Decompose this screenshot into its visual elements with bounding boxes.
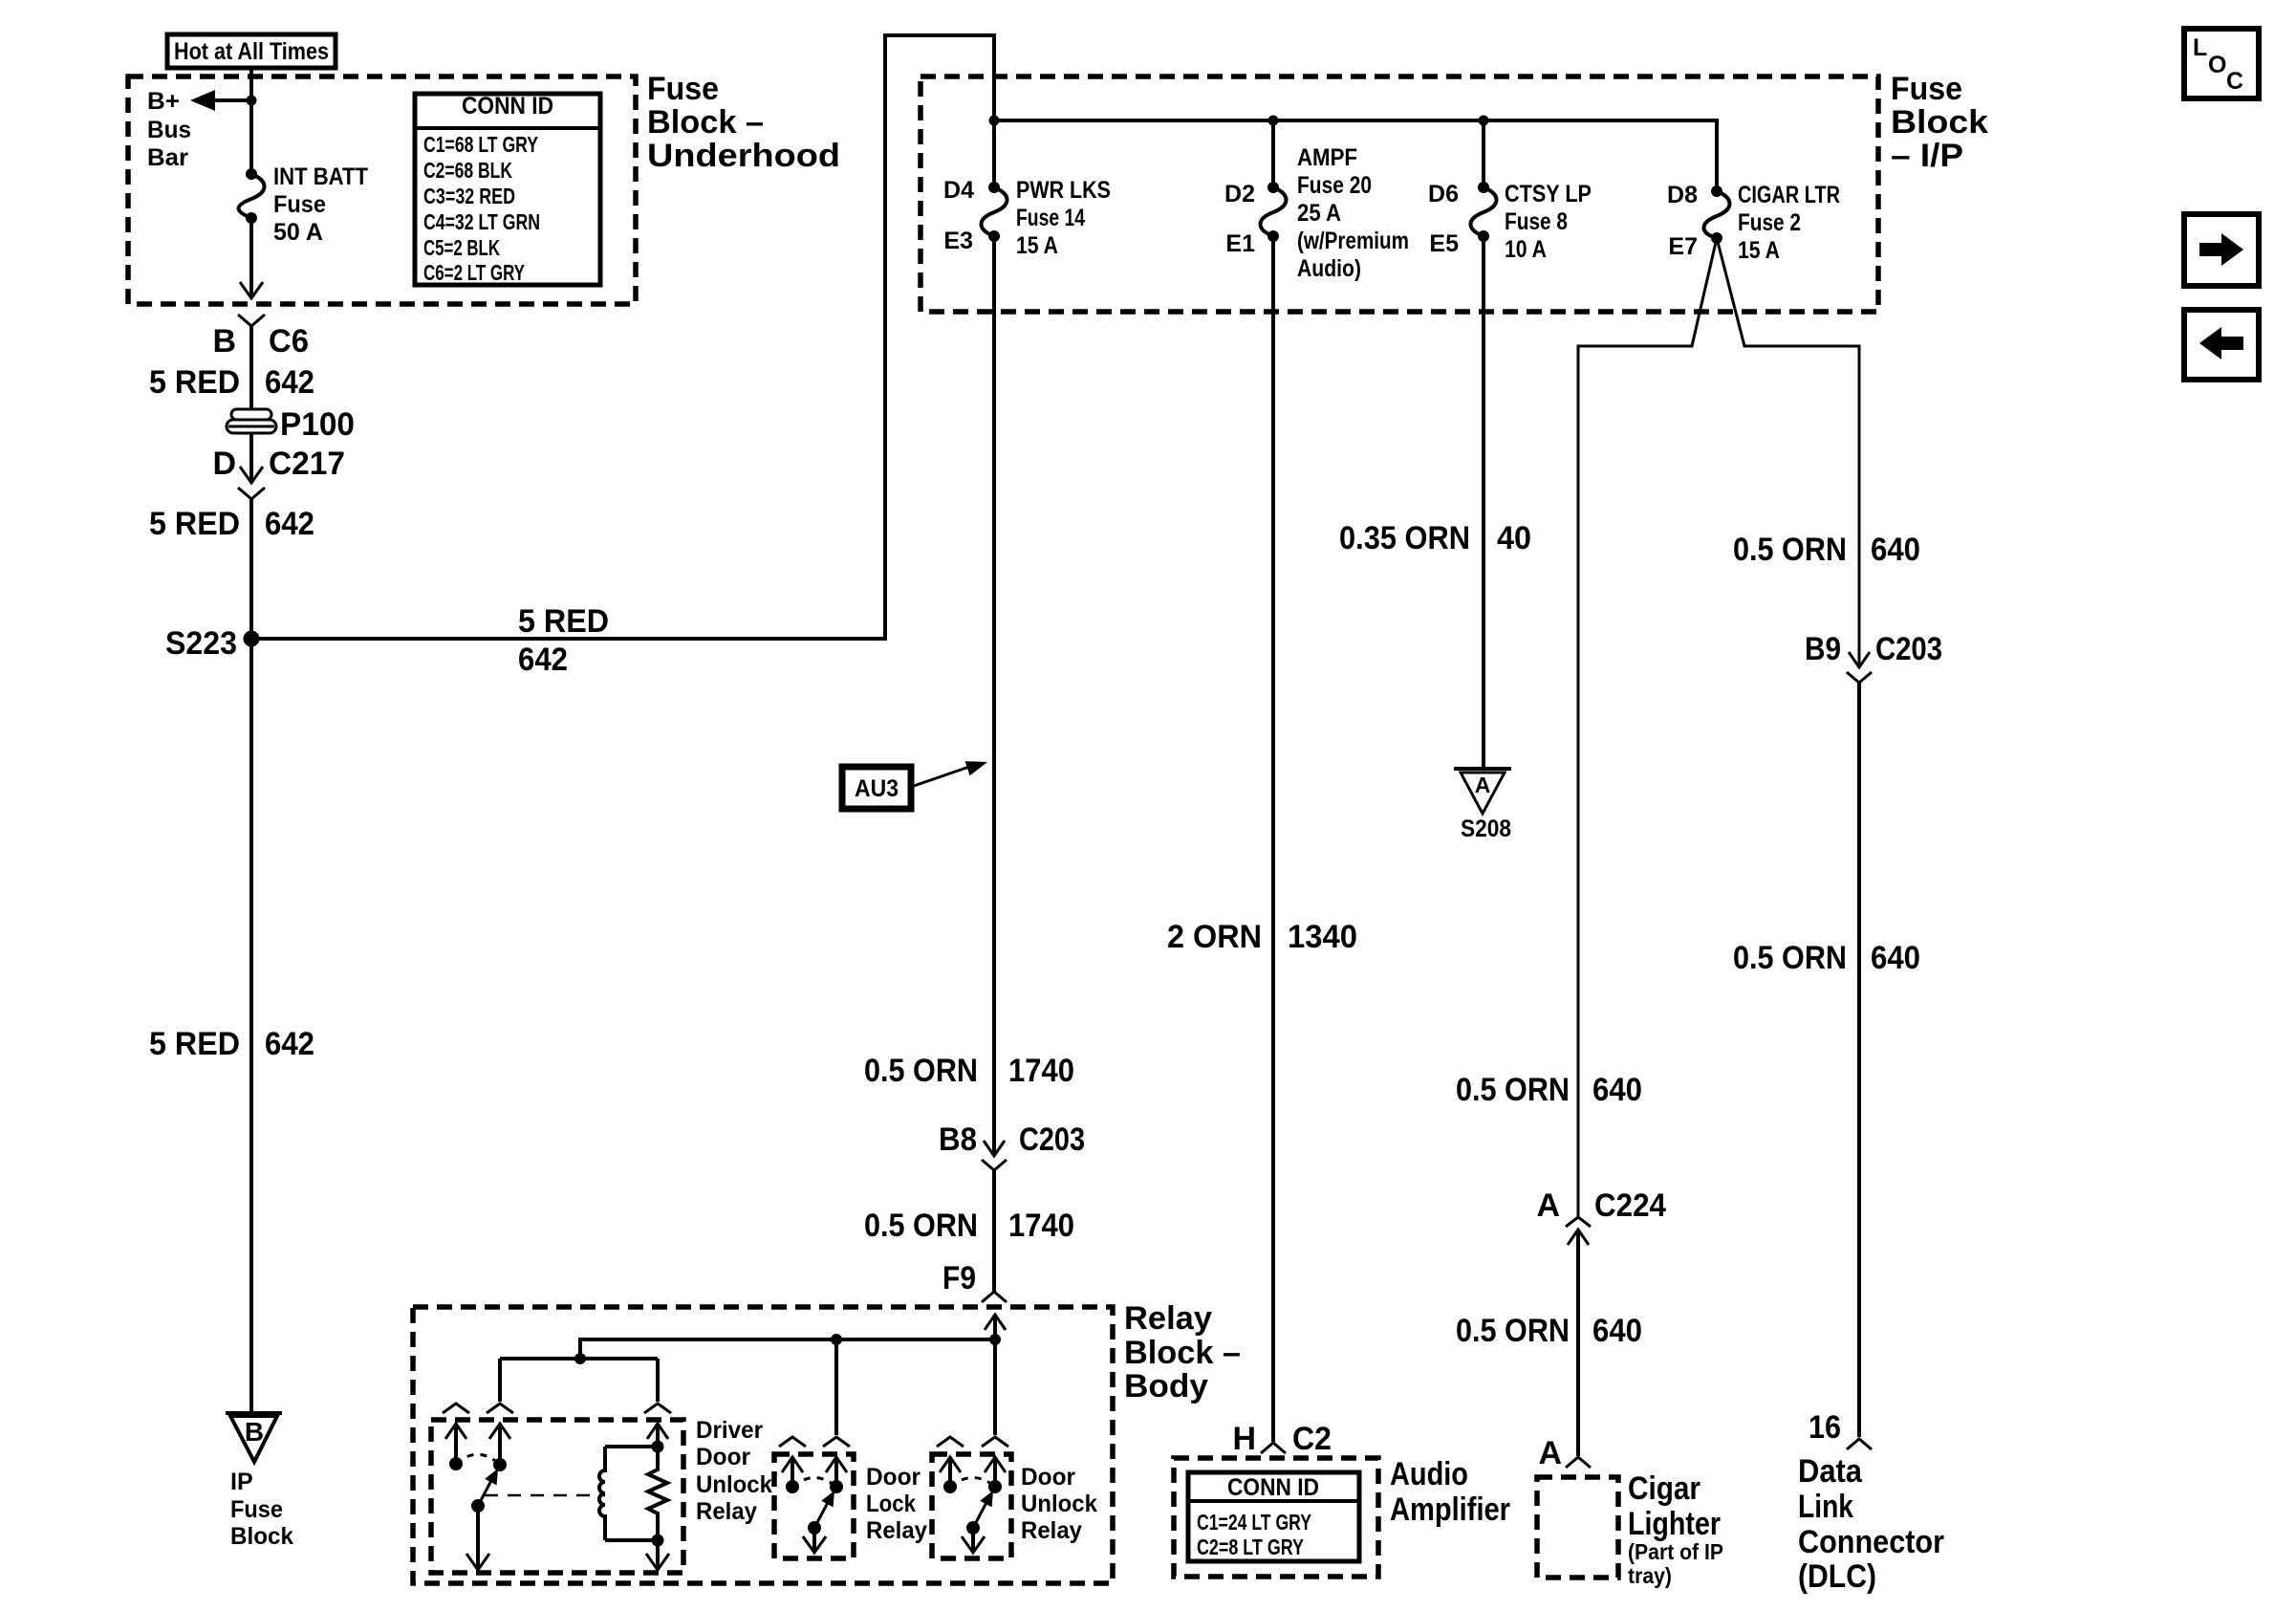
svg-text:B+: B+ (147, 88, 180, 115)
svg-text:642: 642 (265, 506, 314, 542)
svg-text:0.35 ORN: 0.35 ORN (1339, 520, 1470, 556)
svg-text:Body: Body (1124, 1368, 1208, 1404)
svg-text:0.5 ORN: 0.5 ORN (864, 1053, 978, 1089)
svg-text:640: 640 (1871, 940, 1920, 976)
svg-text:C5=2 BLK: C5=2 BLK (423, 235, 500, 260)
svg-text:5 RED: 5 RED (149, 506, 240, 542)
svg-text:(DLC): (DLC) (1798, 1558, 1876, 1595)
svg-text:Door: Door (1021, 1464, 1075, 1491)
svg-text:C3=32 RED: C3=32 RED (423, 184, 515, 208)
svg-text:Amplifier: Amplifier (1390, 1491, 1510, 1528)
svg-text:Block: Block (1891, 104, 1988, 141)
svg-text:Connector: Connector (1798, 1524, 1944, 1560)
svg-text:Audio): Audio) (1297, 255, 1361, 282)
svg-text:Fuse: Fuse (647, 71, 719, 107)
svg-text:CONN ID: CONN ID (1227, 1474, 1319, 1501)
svg-text:C1=24 LT GRY: C1=24 LT GRY (1197, 1510, 1311, 1535)
svg-text:640: 640 (1871, 532, 1920, 568)
svg-text:0.5 ORN: 0.5 ORN (1733, 532, 1847, 568)
svg-text:AU3: AU3 (855, 775, 899, 802)
svg-text:B8: B8 (939, 1121, 977, 1158)
svg-text:E5: E5 (1429, 230, 1459, 257)
svg-text:A: A (1536, 1187, 1560, 1224)
svg-text:Bus: Bus (147, 117, 191, 143)
svg-text:(w/Premium: (w/Premium (1297, 228, 1409, 254)
svg-text:IP: IP (230, 1469, 253, 1495)
svg-text:15 A: 15 A (1738, 237, 1780, 264)
svg-text:CIGAR LTR: CIGAR LTR (1738, 182, 1840, 208)
svg-text:0.5 ORN: 0.5 ORN (1456, 1072, 1570, 1108)
svg-text:0.5 ORN: 0.5 ORN (1733, 940, 1847, 976)
svg-text:0.5 ORN: 0.5 ORN (864, 1208, 978, 1244)
svg-text:640: 640 (1592, 1072, 1642, 1108)
svg-text:Fuse 14: Fuse 14 (1016, 205, 1085, 231)
svg-text:S208: S208 (1461, 816, 1511, 842)
svg-text:Door: Door (696, 1444, 750, 1470)
svg-text:C203: C203 (1875, 631, 1942, 667)
svg-text:0.5 ORN: 0.5 ORN (1456, 1313, 1570, 1349)
svg-text:D8: D8 (1667, 182, 1698, 208)
svg-text:5 RED: 5 RED (149, 364, 240, 401)
svg-text:Relay: Relay (866, 1517, 927, 1544)
svg-text:Audio: Audio (1390, 1456, 1468, 1492)
svg-text:E7: E7 (1668, 233, 1698, 260)
svg-text:tray): tray) (1628, 1563, 1672, 1588)
svg-text:E1: E1 (1225, 230, 1255, 257)
svg-text:Unlock: Unlock (696, 1471, 772, 1498)
svg-text:C6=2 LT GRY: C6=2 LT GRY (423, 260, 525, 285)
svg-text:E3: E3 (943, 228, 973, 254)
svg-text:B: B (245, 1417, 264, 1447)
svg-text:Driver: Driver (696, 1417, 763, 1444)
svg-text:Underhood: Underhood (647, 138, 840, 174)
svg-text:25 A: 25 A (1297, 200, 1341, 227)
svg-text:H: H (1232, 1421, 1256, 1457)
svg-text:Block –: Block – (647, 104, 764, 141)
svg-text:Unlock: Unlock (1021, 1491, 1097, 1517)
svg-text:1740: 1740 (1008, 1208, 1074, 1244)
svg-text:Relay: Relay (696, 1498, 757, 1525)
svg-text:L: L (2193, 34, 2207, 61)
svg-text:C203: C203 (1019, 1121, 1085, 1158)
svg-text:5 RED: 5 RED (149, 1026, 240, 1062)
svg-text:P100: P100 (280, 406, 355, 443)
svg-text:C2=68 BLK: C2=68 BLK (423, 158, 512, 183)
svg-text:INT BATT: INT BATT (273, 163, 368, 190)
svg-text:A: A (1538, 1435, 1562, 1471)
svg-text:1340: 1340 (1288, 919, 1357, 955)
svg-text:15 A: 15 A (1016, 232, 1058, 259)
svg-text:Hot at All Times: Hot at All Times (174, 38, 329, 65)
svg-text:Door: Door (866, 1464, 921, 1491)
svg-text:2 ORN: 2 ORN (1167, 919, 1262, 955)
svg-text:Fuse 20: Fuse 20 (1297, 172, 1372, 199)
svg-text:Fuse: Fuse (273, 191, 326, 218)
svg-text:Link: Link (1798, 1489, 1853, 1525)
svg-text:10 A: 10 A (1505, 236, 1547, 263)
svg-text:C2=8 LT GRY: C2=8 LT GRY (1197, 1535, 1304, 1559)
svg-text:Bar: Bar (147, 144, 188, 171)
svg-text:640: 640 (1592, 1313, 1642, 1349)
svg-text:C4=32 LT GRN: C4=32 LT GRN (423, 209, 540, 234)
svg-text:Fuse: Fuse (1891, 71, 1962, 107)
svg-text:Lighter: Lighter (1628, 1506, 1721, 1542)
svg-text:Data: Data (1798, 1453, 1863, 1490)
svg-text:40: 40 (1497, 520, 1531, 556)
svg-text:– I/P: – I/P (1891, 138, 1963, 174)
svg-text:D: D (212, 446, 236, 482)
svg-text:642: 642 (518, 642, 568, 678)
svg-text:Cigar: Cigar (1628, 1470, 1700, 1507)
svg-text:B: B (212, 323, 236, 359)
svg-text:D6: D6 (1428, 181, 1459, 207)
svg-text:AMPF: AMPF (1297, 144, 1357, 171)
svg-text:Block –: Block – (1124, 1335, 1241, 1371)
svg-text:642: 642 (265, 1026, 314, 1062)
svg-text:Fuse: Fuse (230, 1496, 283, 1523)
svg-text:Relay: Relay (1124, 1300, 1212, 1337)
svg-text:(Part of IP: (Part of IP (1628, 1539, 1723, 1564)
svg-text:Lock: Lock (866, 1491, 916, 1517)
svg-text:16: 16 (1809, 1409, 1841, 1446)
svg-text:C224: C224 (1594, 1187, 1666, 1224)
svg-text:642: 642 (265, 364, 314, 401)
svg-text:C217: C217 (269, 446, 345, 482)
svg-text:A: A (1475, 773, 1491, 797)
svg-text:5 RED: 5 RED (518, 603, 609, 640)
svg-text:Block: Block (230, 1523, 293, 1550)
svg-text:B9: B9 (1805, 631, 1841, 667)
svg-text:PWR LKS: PWR LKS (1016, 177, 1111, 204)
svg-text:C2: C2 (1292, 1421, 1332, 1457)
svg-text:S223: S223 (165, 625, 237, 662)
svg-text:D2: D2 (1224, 181, 1255, 207)
svg-text:CTSY LP: CTSY LP (1505, 181, 1592, 207)
svg-text:C: C (2226, 68, 2243, 95)
svg-text:CONN ID: CONN ID (462, 93, 553, 120)
svg-text:Relay: Relay (1021, 1517, 1082, 1544)
svg-text:Fuse 2: Fuse 2 (1738, 209, 1801, 236)
svg-text:50 A: 50 A (273, 219, 323, 246)
svg-text:C6: C6 (269, 323, 309, 359)
svg-text:Fuse 8: Fuse 8 (1505, 208, 1568, 235)
svg-text:O: O (2208, 52, 2226, 78)
svg-text:C1=68 LT GRY: C1=68 LT GRY (423, 132, 538, 157)
svg-text:D4: D4 (943, 177, 974, 204)
svg-text:F9: F9 (942, 1260, 976, 1296)
svg-text:1740: 1740 (1008, 1053, 1074, 1089)
